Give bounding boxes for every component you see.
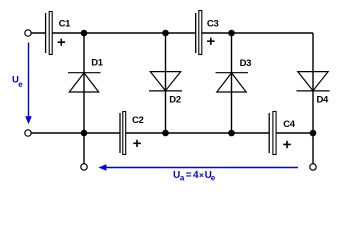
svg-text:a: a bbox=[180, 174, 185, 183]
svg-text:C3: C3 bbox=[207, 18, 219, 29]
svg-text:=: = bbox=[186, 170, 192, 181]
svg-text:×: × bbox=[199, 170, 204, 180]
svg-text:C2: C2 bbox=[132, 115, 144, 126]
svg-text:D4: D4 bbox=[317, 94, 330, 105]
svg-text:D1: D1 bbox=[91, 58, 104, 69]
svg-text:e: e bbox=[211, 174, 216, 183]
svg-text:D3: D3 bbox=[240, 58, 252, 69]
svg-text:e: e bbox=[18, 80, 23, 89]
svg-text:C1: C1 bbox=[59, 18, 72, 29]
svg-text:D2: D2 bbox=[169, 94, 181, 105]
svg-text:C4: C4 bbox=[283, 119, 296, 130]
